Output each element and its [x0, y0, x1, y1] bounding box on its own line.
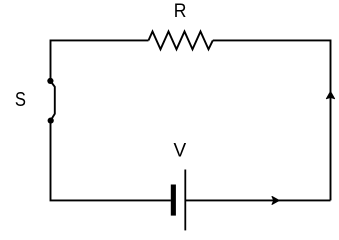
- resistor R: [149, 32, 213, 50]
- battery V positive plate (long thin): [184, 170, 186, 231]
- switch S terminal node (top): [47, 78, 53, 84]
- current direction arrow (up) on right wire: [326, 92, 334, 99]
- svg-text:S: S: [15, 87, 26, 110]
- svg-text:R: R: [174, 0, 187, 21]
- wire: switch top terminal up to top-left corner and across to resistor: [51, 40, 149, 81]
- switch S blade: [50, 81, 54, 120]
- label S: [15, 87, 26, 110]
- wire: battery negative plate to bottom-left corner and up to switch bottom terminal: [51, 121, 171, 201]
- wire: bottom-right corner to battery positive plate: [185, 199, 330, 201]
- battery V negative plate (short thick): [171, 185, 176, 216]
- svg-text:V: V: [173, 141, 186, 162]
- current direction arrow (right) on bottom wire: [272, 197, 279, 205]
- label R: [174, 0, 187, 21]
- switch S terminal node (bottom): [48, 118, 54, 124]
- wire: resistor to top-right corner and down right side to bottom-right corner: [213, 40, 331, 200]
